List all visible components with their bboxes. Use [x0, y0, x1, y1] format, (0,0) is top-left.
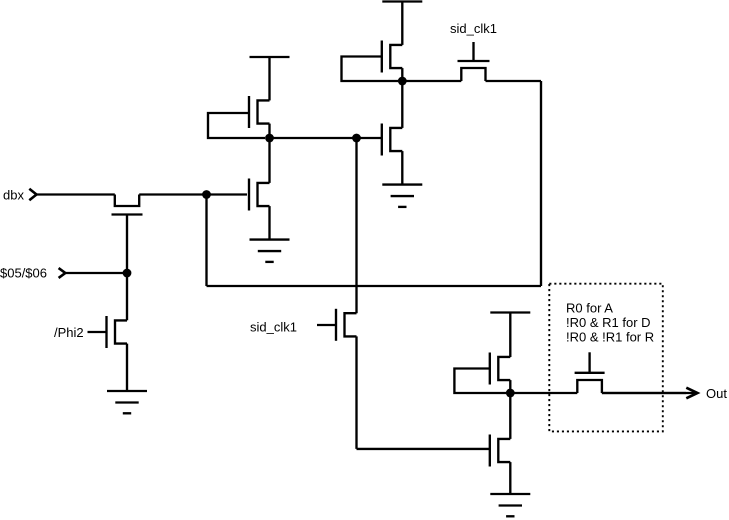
wire Q5 source to node D — [401, 68, 403, 81]
node C junction — [352, 134, 361, 143]
output arrow — [602, 388, 698, 399]
wire node D to Q6 drain — [401, 81, 403, 128]
node A junction — [123, 269, 132, 278]
wire Q4 source to ground — [268, 206, 270, 240]
wire to Q10 gate — [357, 448, 490, 450]
wire dbx to Q1 — [37, 193, 115, 195]
wire Q3 source to node B — [268, 124, 270, 138]
ground G4 — [490, 494, 530, 516]
transistor Q6 (driver) — [382, 124, 403, 156]
wire VDD3 to Q9 drain — [509, 313, 511, 358]
annotation box — [549, 284, 663, 432]
wire Q11 gate lead — [588, 352, 590, 373]
wire node B to node C — [270, 137, 357, 139]
label sid_clk1 mid — [250, 319, 297, 334]
transistor Q8 (pass, sid_clk1) — [336, 309, 357, 341]
svg-text:sid_clk1: sid_clk1 — [450, 21, 497, 36]
wire Q8 gate lead — [317, 324, 336, 326]
label sid_clk1 top — [450, 21, 497, 36]
label !R0 &amp; R1 for D — [566, 315, 651, 330]
node D junction — [398, 77, 407, 86]
power rail VDD2 — [382, 0, 422, 2]
svg-text:/Phi2: /Phi2 — [54, 325, 84, 340]
wire Q2 source to ground — [126, 344, 128, 391]
wire VDD1 to Q3 drain — [268, 57, 270, 100]
node B junction — [265, 134, 274, 143]
wire Q9 gate feedback — [454, 369, 506, 394]
svg-text:dbx: dbx — [3, 188, 24, 203]
wire bottom rail — [207, 285, 542, 287]
svg-text:sid_clk1: sid_clk1 — [250, 319, 297, 334]
power rail VDD3 — [490, 311, 530, 313]
node Out junction — [506, 389, 515, 398]
wire $05/$06 to node A — [65, 272, 127, 274]
transistor Q11 (output pass) — [575, 373, 605, 393]
transistor Q5 (load) — [382, 41, 403, 73]
transistor Q2 (/Phi2) — [107, 316, 128, 348]
transistor Q9 (load) — [490, 353, 511, 385]
wire node C to Q6 gate — [357, 137, 382, 139]
transistor Q1 (pass, gate below) — [112, 195, 143, 215]
wire dbx-junction to Q4 gate — [207, 193, 248, 195]
node dbx-junction — [202, 190, 211, 199]
wire right rail down — [540, 81, 542, 286]
wire Q3 gate feedback — [208, 113, 265, 138]
label Out — [706, 386, 727, 401]
input port $05/$06 — [0, 266, 65, 281]
transistor Q4 (driver) — [249, 179, 270, 211]
svg-text:$05/$06: $05/$06 — [0, 266, 47, 281]
label /Phi2 — [54, 325, 84, 340]
wire Q11 to output arrow — [602, 392, 686, 394]
wire left rail down — [205, 195, 207, 287]
wire Q1 to node dbx-junction — [139, 193, 206, 195]
wire /Phi2 gate lead — [88, 331, 107, 333]
transistor Q7 (pass, sid_clk1) — [458, 61, 490, 81]
label R0 for A — [566, 300, 613, 315]
ground G1 — [107, 391, 147, 413]
power rail VDD1 — [250, 56, 290, 58]
wire node B to Q4 drain — [268, 138, 270, 183]
wire VDD2 to Q5 drain — [401, 2, 403, 45]
wire Q5 gate feedback — [342, 57, 399, 82]
transistor Q10 (driver) — [490, 435, 511, 467]
wire Q10 source to ground — [509, 462, 511, 494]
ground G2 — [250, 240, 290, 262]
svg-text:!R0 & R1 for D: !R0 & R1 for D — [566, 315, 651, 330]
wire node D to Q7 — [402, 80, 461, 82]
svg-text:Out: Out — [706, 386, 727, 401]
wire Q7 gate lead — [472, 42, 474, 61]
wire Q7 to right rail — [486, 80, 542, 82]
wire Q8 source down — [355, 336, 357, 449]
label !R0 &amp; !R1 for R — [566, 330, 654, 345]
wire node C down to Q8 — [355, 138, 357, 313]
wire Q6 source to ground — [401, 151, 403, 185]
wire node A to Q2 drain — [126, 273, 128, 320]
wire Q1 gate to node A — [126, 215, 128, 274]
ground G3 — [382, 185, 422, 207]
wire node Out to Q11 — [510, 392, 577, 394]
svg-text:R0 for A: R0 for A — [566, 300, 613, 315]
wire node Out to Q10 drain — [509, 393, 511, 439]
input port dbx — [3, 188, 37, 203]
svg-text:!R0 & !R1 for R: !R0 & !R1 for R — [566, 330, 654, 345]
transistor Q3 (load) — [249, 96, 270, 128]
wire Q9 source to node Out — [509, 380, 511, 393]
